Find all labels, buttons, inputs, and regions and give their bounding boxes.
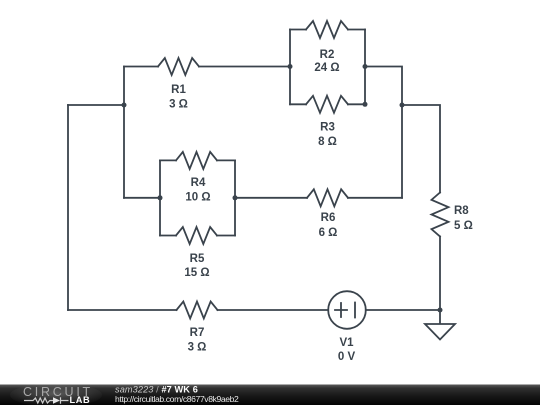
junction dot right of R4/R5	[233, 195, 238, 200]
junction dot branch to R8	[400, 103, 405, 108]
svg-text:3 Ω: 3 Ω	[188, 342, 207, 354]
wire R6 right lead	[348, 197, 402, 199]
logo background glow	[10, 383, 102, 405]
junction dot R3 right	[363, 102, 368, 107]
wire R7 to V1	[218, 309, 329, 311]
resistor R3	[306, 96, 348, 113]
svg-text:V1: V1	[339, 337, 354, 349]
svg-text:sam3223 / #7 WK 6: sam3223 / #7 WK 6	[115, 385, 198, 395]
wire far-left rail vertical	[67, 105, 69, 310]
wire bottom rail left	[68, 309, 177, 311]
svg-text:6 Ω: 6 Ω	[319, 227, 338, 239]
footer bar	[0, 385, 540, 405]
svg-text:24 Ω: 24 Ω	[314, 62, 339, 74]
wire R4/R5 box right vertical	[234, 160, 236, 235]
svg-text:LAB: LAB	[70, 395, 91, 405]
wire R3 bottom-left lead	[290, 103, 306, 105]
junction dot left of R2/R3	[288, 64, 293, 69]
voltage source V1	[328, 291, 366, 329]
wire R2/R3 box right vertical	[364, 30, 366, 105]
wire R8 bottom to rail	[439, 237, 441, 311]
wire branch to R8 top	[402, 105, 440, 193]
wire R3 bottom-right lead	[348, 103, 365, 105]
wire R2 top-left lead	[290, 29, 306, 31]
resistor R4	[176, 152, 217, 169]
svg-text:3 Ω: 3 Ω	[169, 99, 188, 111]
svg-text:10 Ω: 10 Ω	[185, 192, 210, 204]
svg-text:0 V: 0 V	[338, 351, 356, 363]
wire to R4/R5 box left	[124, 197, 160, 199]
wire R1 left lead	[124, 66, 158, 68]
svg-text:http://circuitlab.com/c8677v8k: http://circuitlab.com/c8677v8k9aeb2	[115, 394, 239, 404]
wire R4 top-left lead	[160, 159, 176, 161]
resistor R5	[176, 227, 217, 244]
svg-text:R7: R7	[190, 327, 205, 339]
svg-text:R3: R3	[320, 122, 335, 134]
junction dot left vertical	[122, 103, 127, 108]
resistor R1	[158, 58, 199, 75]
wire R5 bottom-right lead	[217, 235, 235, 237]
resistor R8	[432, 193, 449, 237]
resistor R6	[307, 189, 348, 206]
wire V1 to ground node	[366, 309, 440, 311]
svg-text:R8: R8	[454, 205, 469, 217]
resistor R7	[177, 302, 218, 319]
junction dot right of R2/R3	[363, 64, 368, 69]
svg-text:R1: R1	[171, 84, 186, 96]
wire R4 top-right lead	[217, 159, 235, 161]
wire R4/R5 box left vertical	[159, 160, 161, 235]
svg-text:5 Ω: 5 Ω	[454, 220, 473, 232]
junction dot left of R4/R5	[158, 195, 163, 200]
wire from R2/R3 right node across and down	[365, 67, 402, 198]
wire branch to far-left rail	[68, 104, 124, 106]
svg-text:R5: R5	[190, 253, 205, 265]
resistor R2	[306, 21, 348, 38]
svg-text:8 Ω: 8 Ω	[318, 136, 337, 148]
svg-text:R6: R6	[321, 212, 336, 224]
ground	[425, 310, 455, 340]
wire R4/R5 right node to R6	[235, 197, 307, 199]
wire R1 right to R2/R3 box	[199, 66, 290, 68]
wire R2 top-right lead	[348, 29, 365, 31]
wire R2/R3 box left vertical	[289, 30, 291, 105]
junction dot above ground	[438, 308, 443, 313]
wire R5 bottom-left lead	[160, 235, 176, 237]
wire left vertical under R1	[123, 67, 125, 198]
svg-text:R4: R4	[191, 177, 206, 189]
svg-text:R2: R2	[320, 49, 335, 61]
logo resistor-diode glyph	[24, 397, 69, 403]
svg-text:15 Ω: 15 Ω	[184, 267, 209, 279]
